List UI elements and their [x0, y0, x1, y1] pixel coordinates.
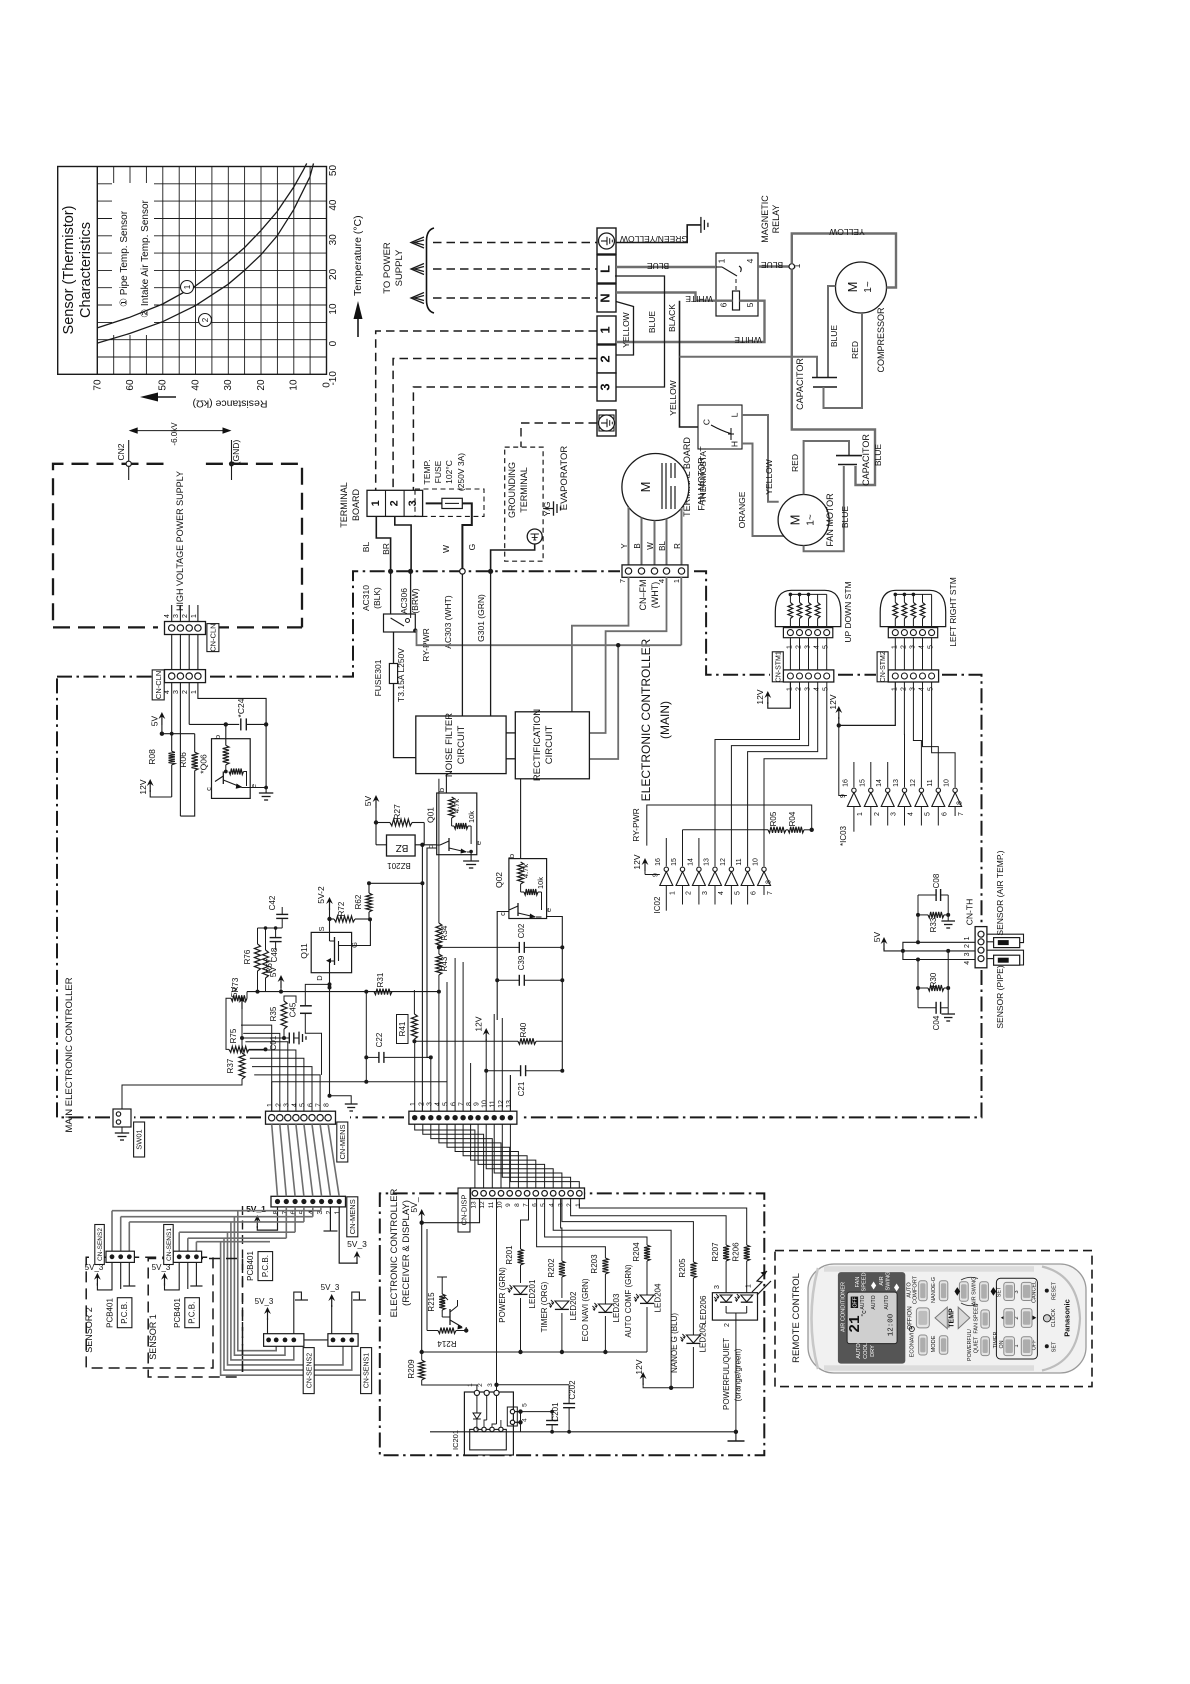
svg-text:(BRW): (BRW) — [410, 588, 420, 614]
ground Q06 — [259, 790, 273, 800]
graph resistance axis labels — [92, 379, 332, 391]
wire cln pin1 rail — [198, 683, 266, 791]
magnetic relay coil — [733, 291, 740, 310]
resistor R33 — [916, 912, 950, 932]
svg-text:2: 2 — [275, 1103, 282, 1107]
svg-text:RED: RED — [850, 341, 860, 359]
svg-text:COMPRESSOR: COMPRESSOR — [876, 307, 886, 373]
svg-text:60: 60 — [125, 379, 136, 391]
indoor fan motor leads YBWBLR — [620, 507, 682, 566]
svg-text:RY-PWR: RY-PWR — [631, 808, 641, 842]
ir signal arrow — [752, 1271, 771, 1295]
svg-text:7: 7 — [767, 891, 774, 895]
svg-text:UP DOWN STM: UP DOWN STM — [843, 581, 853, 642]
svg-text:4: 4 — [522, 1418, 529, 1422]
wire CN-FM pin1 to rectification — [589, 645, 618, 759]
svg-text:5V_3: 5V_3 — [347, 1239, 367, 1249]
capacitor (compressor) — [795, 358, 837, 410]
power 5V mid — [268, 966, 284, 993]
remote button AUTO COMFORT — [907, 1275, 928, 1304]
ground CN-MENS pin8 hook — [330, 1096, 358, 1111]
resistor R35 — [269, 996, 296, 1040]
remote air swing buttons — [955, 1277, 997, 1306]
wire Q01 collector down pair — [427, 848, 437, 1057]
svg-text:8: 8 — [466, 1102, 473, 1106]
svg-text:R37: R37 — [226, 1058, 235, 1073]
power 5V_3 a — [339, 1207, 367, 1264]
svg-text:AIR: AIR — [879, 1276, 885, 1285]
wires IC03 outputs to CN-STM2 — [904, 682, 955, 787]
svg-text:WHITE: WHITE — [685, 294, 713, 304]
svg-text:8: 8 — [766, 880, 773, 884]
svg-text:CN2: CN2 — [116, 443, 126, 460]
svg-text:R35: R35 — [269, 1006, 278, 1021]
svg-text:(250V 3A): (250V 3A) — [456, 453, 466, 491]
capacitor C39 — [495, 955, 564, 986]
svg-text:M: M — [638, 482, 653, 493]
svg-text:12: 12 — [910, 779, 917, 787]
svg-text:16: 16 — [655, 858, 662, 866]
svg-text:c: c — [498, 912, 507, 916]
svg-text:AUTO: AUTO — [856, 1343, 862, 1359]
svg-text:TIMER: TIMER — [993, 1332, 999, 1349]
resistor R30 — [916, 972, 950, 991]
wire th bottom loop — [918, 951, 948, 1008]
connector CN-CLN lower — [164, 670, 206, 694]
svg-text:1: 1 — [857, 812, 864, 816]
svg-text:G301 (GRN): G301 (GRN) — [476, 594, 486, 642]
power 5V th — [872, 931, 975, 952]
grounding terminal symbol — [527, 529, 542, 544]
svg-text:R215: R215 — [427, 1292, 436, 1312]
svg-text:TEMP: TEMP — [949, 1308, 956, 1328]
svg-text:GROUNDING: GROUNDING — [507, 462, 517, 518]
svg-text:IC02: IC02 — [653, 896, 662, 913]
svg-text:SPEED: SPEED — [862, 1273, 868, 1292]
wire cln pin2 to C24 — [188, 683, 190, 725]
svg-text:11: 11 — [488, 1201, 495, 1208]
resistor R202 — [547, 1199, 565, 1298]
svg-text:R207: R207 — [711, 1242, 720, 1262]
svg-text:R209: R209 — [407, 1359, 416, 1379]
led LED202 TIMER ORG — [540, 1281, 578, 1352]
wire Q11 gate to R62 — [352, 919, 371, 945]
svg-text:W: W — [441, 545, 451, 553]
label PCB401 sensor1 — [173, 1298, 199, 1328]
svg-text:TERMINAL: TERMINAL — [519, 467, 529, 513]
label CN-SENS2 lower — [303, 1348, 314, 1394]
svg-text:ECONAVI: ECONAVI — [910, 1332, 916, 1357]
border main electronic controller — [57, 571, 982, 1117]
resistor R201 — [505, 1199, 529, 1283]
svg-text:AIR CONDITIONER: AIR CONDITIONER — [841, 1282, 847, 1332]
svg-text:EVAPORATOR: EVAPORATOR — [559, 446, 570, 511]
svg-text:4.7k: 4.7k — [521, 864, 530, 878]
svg-text:BL: BL — [658, 541, 667, 551]
resistor R67 — [263, 926, 275, 991]
transistor *Q06 — [199, 722, 269, 798]
svg-text:IC201: IC201 — [451, 1430, 460, 1450]
wire BLUE L to relay — [616, 261, 716, 271]
remote fan speed button — [974, 1303, 990, 1333]
connector CN-STM1 — [783, 670, 833, 691]
graph resistance axis title — [140, 393, 267, 410]
svg-text:12V: 12V — [138, 779, 148, 794]
svg-text:7: 7 — [618, 579, 627, 583]
svg-text:R43: R43 — [440, 956, 449, 971]
resistor R34 — [436, 923, 449, 948]
ground stub cnsens2 — [294, 1292, 308, 1334]
svg-text:3: 3 — [407, 500, 419, 506]
svg-text:*C24: *C24 — [236, 698, 246, 717]
svg-text:M: M — [788, 515, 803, 526]
svg-text:3: 3 — [714, 1285, 721, 1289]
border remote control dashed box — [775, 1251, 1092, 1387]
remote powerful quiet button — [967, 1328, 989, 1361]
svg-text:SENSOR (AIR TEMP.): SENSOR (AIR TEMP.) — [995, 850, 1005, 935]
svg-text:11: 11 — [736, 858, 743, 865]
svg-text:15: 15 — [671, 858, 678, 866]
svg-text:C02: C02 — [517, 923, 526, 938]
wire cln pin3 down — [179, 683, 181, 816]
power 12V ic02 — [632, 854, 660, 874]
svg-text:CN-CLN: CN-CLN — [154, 671, 163, 699]
transistor Q01 — [426, 788, 484, 855]
svg-text:(MAIN): (MAIN) — [658, 701, 672, 739]
svg-text:5: 5 — [823, 687, 830, 691]
svg-text:e: e — [544, 908, 553, 912]
wire ground rail recv — [430, 1430, 738, 1434]
wire relay to fuse301 — [393, 632, 395, 664]
svg-text:3: 3 — [487, 1383, 494, 1387]
wire 5V rail A — [247, 991, 439, 993]
connector 13pin main — [409, 1100, 517, 1124]
capacitor C21 — [486, 1065, 564, 1096]
svg-text:PCB401: PCB401 — [246, 1251, 255, 1281]
resistor R06 — [178, 734, 198, 816]
border high voltage power supply box — [53, 464, 302, 628]
wire CN-FM pin7 down — [572, 577, 629, 712]
svg-text:4: 4 — [291, 1103, 298, 1107]
svg-text:1: 1 — [410, 1102, 417, 1106]
stepping motor UP DOWN STM — [775, 581, 853, 670]
svg-text:CAPACITOR: CAPACITOR — [795, 358, 805, 410]
thermistor sensor air temp — [987, 934, 1024, 947]
svg-text:4: 4 — [814, 687, 821, 691]
svg-text:CN–FM: CN–FM — [638, 580, 648, 611]
svg-text:CN-STM1: CN-STM1 — [775, 651, 782, 682]
fuse FUSE301 — [373, 648, 406, 702]
svg-text:(WHT): (WHT) — [650, 582, 660, 609]
svg-text:FUSE: FUSE — [433, 460, 443, 483]
wire BR to relay RY301 — [410, 571, 412, 614]
svg-text:3: 3 — [283, 1103, 290, 1107]
remote labels auto cool dry — [856, 1343, 876, 1359]
node G on border — [488, 569, 493, 574]
svg-text:9: 9 — [505, 1203, 512, 1207]
svg-text:7: 7 — [459, 1102, 466, 1106]
label MAGNETIC RELAY — [760, 195, 781, 243]
led LED203 ECO NAVI GRN — [581, 1278, 621, 1352]
svg-text:Panasonic: Panasonic — [1063, 1299, 1072, 1337]
resistors R05 R04 RY-PWR — [683, 811, 814, 866]
graph curve 2 intake air temp sensor — [97, 163, 313, 343]
svg-text:OFF: OFF — [853, 1297, 859, 1307]
svg-text:1: 1 — [575, 1203, 582, 1207]
svg-text:20: 20 — [328, 268, 339, 280]
svg-text:40: 40 — [190, 379, 201, 391]
wire BZ to Q01 — [415, 843, 437, 847]
wires CN-MENS staircase to analog — [241, 1025, 320, 1111]
wire mens2 pin2 stub bar — [324, 1207, 338, 1231]
svg-text:WHITE: WHITE — [734, 335, 762, 345]
svg-text:CN-SENS2: CN-SENS2 — [97, 1228, 104, 1261]
svg-text:C42: C42 — [268, 895, 277, 910]
ic IC02 inverter array — [653, 858, 775, 913]
connector CN-SENS2 lower — [264, 1334, 304, 1347]
svg-text:BOARD: BOARD — [351, 489, 361, 522]
wire Q01 emitter ground — [463, 852, 479, 869]
svg-text:1: 1 — [191, 614, 198, 618]
svg-text:3: 3 — [173, 614, 180, 618]
svg-text:5: 5 — [734, 891, 741, 895]
svg-text:1: 1 — [746, 1284, 753, 1288]
svg-text:CN-DISP: CN-DISP — [460, 1195, 469, 1226]
mosfet Q11 — [299, 926, 359, 980]
capacitor C04 — [918, 1002, 948, 1031]
svg-text:4: 4 — [718, 891, 725, 895]
svg-text:10k: 10k — [536, 877, 545, 889]
svg-text:R: R — [673, 543, 682, 549]
svg-text:YELLOW: YELLOW — [668, 380, 678, 415]
svg-text:6: 6 — [451, 1102, 458, 1106]
svg-text:C04: C04 — [932, 1015, 941, 1030]
svg-text:R75: R75 — [229, 1028, 238, 1043]
wire RED fan capacitor — [790, 441, 849, 495]
resistor R204 — [545, 1199, 650, 1297]
outdoor fan motor M1~ — [778, 495, 829, 546]
svg-text:8: 8 — [324, 1103, 331, 1107]
svg-text:16: 16 — [842, 779, 849, 787]
capacitor C42 — [268, 895, 288, 928]
svg-text:(GND): (GND) — [231, 440, 241, 465]
svg-text:21: 21 — [848, 1315, 864, 1333]
connector CN-SENS1 lower — [328, 1334, 358, 1347]
svg-text:YELLOW: YELLOW — [829, 227, 864, 237]
wire 5V th rail2 — [903, 940, 975, 951]
svg-text:G: G — [467, 544, 477, 551]
svg-text:S: S — [317, 926, 326, 931]
wire noise filter to rectification — [506, 733, 515, 759]
svg-text:9: 9 — [840, 794, 847, 798]
label AC306 (BRW) — [399, 588, 420, 614]
svg-text:YELLOW: YELLOW — [621, 312, 631, 347]
wire dashed earth to power supply — [433, 242, 597, 244]
svg-text:C22: C22 — [375, 1032, 384, 1047]
svg-text:BLUE: BLUE — [829, 325, 839, 348]
svg-text:30: 30 — [223, 379, 234, 391]
svg-text:SUPPLY: SUPPLY — [394, 249, 405, 286]
power 12V mid — [474, 1016, 490, 1111]
svg-text:CIRCUIT: CIRCUIT — [456, 726, 467, 765]
led LED201 POWER GRN — [498, 1267, 537, 1352]
svg-text:4: 4 — [745, 258, 755, 263]
wire IC02 out14 stub — [698, 838, 700, 866]
wire L link to terminal 3 — [615, 276, 665, 387]
ground symbol evaporator — [543, 501, 560, 515]
svg-text:5: 5 — [924, 812, 931, 816]
svg-text:FAN: FAN — [855, 1277, 861, 1288]
svg-text:COOL: COOL — [863, 1343, 869, 1359]
border pcb dashed — [242, 1206, 244, 1372]
svg-text:13: 13 — [704, 858, 711, 866]
svg-text:1: 1 — [267, 1103, 274, 1107]
resistor R31 — [364, 972, 441, 994]
svg-text:RESET: RESET — [1052, 1281, 1058, 1300]
terminal board (outdoor) cells — [597, 228, 616, 436]
svg-text:R203: R203 — [590, 1254, 599, 1274]
label TEMP FUSE 102C 250V 3A — [422, 453, 466, 491]
svg-text:9: 9 — [474, 1102, 481, 1106]
svg-text:13: 13 — [470, 1201, 477, 1209]
border electronic controller receiver display — [380, 1193, 765, 1455]
svg-text:5: 5 — [522, 1403, 529, 1407]
resistor R215 — [427, 1277, 447, 1312]
svg-text:3: 3 — [173, 690, 180, 694]
power 5V_3 sensor2 — [85, 1262, 112, 1290]
noise filter circuit box — [416, 713, 506, 777]
svg-text:12: 12 — [498, 1100, 505, 1108]
svg-text:11: 11 — [490, 1100, 497, 1107]
resistor R206 — [579, 1199, 749, 1293]
node BR on border — [408, 569, 413, 574]
svg-text:1: 1 — [183, 284, 192, 289]
svg-text:2: 2 — [964, 944, 971, 948]
svg-text:10k: 10k — [467, 811, 476, 823]
svg-text:R34: R34 — [440, 925, 449, 940]
remote set clock reset — [1043, 1281, 1057, 1352]
wire YELLOW thermostat L to fan motor — [742, 415, 779, 502]
wire IC03 out15 stub — [870, 762, 872, 787]
wire dashed L to power supply — [433, 268, 597, 270]
svg-text:BZ201: BZ201 — [387, 861, 411, 870]
wire fuse to noise filter — [394, 684, 416, 758]
resistor R207 — [571, 1199, 730, 1293]
wire node1 down to fan capacitor — [792, 269, 875, 485]
svg-text:Resistance (kΩ): Resistance (kΩ) — [193, 398, 268, 410]
svg-text:5V: 5V — [268, 966, 278, 977]
resistor R43 — [436, 945, 449, 991]
ic *IC03 inverter array — [839, 779, 965, 846]
capacitor *C24 — [236, 698, 268, 730]
svg-text:CN-TH: CN-TH — [965, 899, 975, 925]
label ELECTRONIC CONTROLLER (MAIN) — [639, 638, 672, 801]
svg-text:SET: SET — [997, 1286, 1003, 1297]
svg-text:C21: C21 — [517, 1081, 526, 1096]
svg-text:R204: R204 — [632, 1242, 641, 1262]
compressor motor M1~ — [836, 262, 887, 313]
svg-text:14: 14 — [876, 779, 883, 787]
svg-text:5V: 5V — [872, 931, 882, 942]
svg-text:RELAY: RELAY — [771, 205, 781, 234]
svg-text:R31: R31 — [376, 972, 385, 987]
svg-text:MAGNETIC: MAGNETIC — [760, 195, 770, 243]
svg-text:°c: °c — [860, 1310, 868, 1317]
svg-text:BLUE: BLUE — [647, 311, 657, 334]
resistor R41 — [397, 1014, 418, 1044]
svg-text:2: 2 — [1014, 1316, 1020, 1319]
svg-text:Characteristics: Characteristics — [78, 222, 94, 318]
svg-text:5V: 5V — [150, 715, 160, 726]
label CN-MENS sensor side — [347, 1197, 358, 1237]
svg-text:b: b — [437, 788, 446, 792]
remote labels fan speed air swing — [855, 1272, 899, 1292]
svg-text:b: b — [507, 854, 516, 858]
svg-text:14: 14 — [687, 858, 694, 866]
power 12V stm1 — [755, 682, 790, 708]
power 5V_ recv — [409, 1197, 480, 1225]
svg-text:T3.15A L250V: T3.15A L250V — [396, 648, 406, 702]
svg-text:SWING: SWING — [886, 1272, 892, 1291]
power 12V — [138, 779, 154, 795]
svg-text:12V: 12V — [632, 854, 642, 869]
svg-text:R201: R201 — [505, 1245, 514, 1265]
svg-text:2: 2 — [724, 1323, 731, 1327]
svg-text:2: 2 — [566, 1203, 573, 1207]
svg-text:TIMER (ORG): TIMER (ORG) — [540, 1281, 549, 1332]
label SW01 — [134, 1122, 145, 1157]
svg-text:5V_3: 5V_3 — [321, 1283, 340, 1292]
connector CN-MENS sensor side — [271, 1196, 346, 1214]
svg-text:Q11: Q11 — [299, 943, 309, 959]
wire IC201 pins right — [515, 1311, 523, 1425]
svg-text:CN-SENS1: CN-SENS1 — [364, 1353, 371, 1389]
svg-text:2: 2 — [182, 614, 189, 618]
wire pin4 col — [438, 992, 440, 1112]
svg-text:YELLOW: YELLOW — [764, 459, 774, 494]
svg-text:2: 2 — [477, 1383, 484, 1387]
magnetic relay box — [716, 253, 758, 316]
graph curve marker 1 — [181, 281, 194, 294]
capacitor C202 — [563, 1380, 577, 1434]
node 1 — [789, 263, 802, 269]
svg-text:C39: C39 — [517, 955, 526, 970]
capacitor C45 — [289, 982, 332, 1075]
svg-text:SENSOR 2: SENSOR 2 — [84, 1307, 94, 1353]
sensor bundle wires — [112, 1207, 372, 1375]
resistor R203 — [537, 1199, 609, 1306]
svg-text:FAN SPEED: FAN SPEED — [974, 1303, 980, 1333]
svg-text:10: 10 — [497, 1201, 504, 1209]
svg-text:BLUE: BLUE — [840, 506, 850, 529]
svg-text:5V_3: 5V_3 — [255, 1297, 274, 1306]
wire BR terminal2 down — [381, 516, 411, 571]
wire BL to relay RY301 — [390, 571, 392, 614]
svg-text:6: 6 — [531, 1203, 538, 1207]
svg-text:-6.0kV: -6.0kV — [170, 422, 179, 446]
svg-text:SW01: SW01 — [135, 1129, 144, 1149]
svg-text:TO POWER: TO POWER — [382, 242, 393, 294]
ground R33 — [941, 915, 955, 928]
wire 12V elbow cln — [150, 790, 172, 797]
wire CN-MENS pin1 rail — [271, 1082, 273, 1111]
graph curve marker 2 — [199, 314, 212, 327]
wire dashed evaporator ground — [521, 423, 597, 447]
svg-text:CLOCK: CLOCK — [1051, 1308, 1057, 1327]
svg-text:AUTO: AUTO — [860, 1295, 866, 1309]
connector CN-FM (WHT) — [618, 565, 688, 583]
svg-text:LED201: LED201 — [528, 1279, 537, 1308]
